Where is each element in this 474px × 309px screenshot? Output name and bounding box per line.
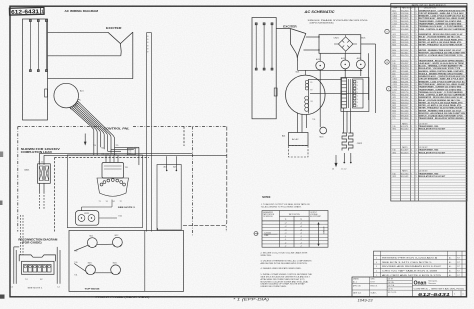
- parts row E21: [391, 92, 467, 94]
- parts row: [391, 140, 467, 142]
- generator stator block (schematic): [252, 18, 276, 119]
- parts row: [391, 189, 467, 191]
- parts row E21: [391, 26, 467, 28]
- wire M21-M22: [97, 243, 114, 245]
- schematic stator lead 1: [255, 23, 257, 70]
- wire bus to regulator: [105, 155, 107, 162]
- parts row: [391, 166, 467, 168]
- junction: [344, 70, 346, 72]
- control panel dashed box top-left: [18, 126, 101, 128]
- wire CB21 down a: [39, 183, 41, 192]
- dashed lead a: [20, 215, 22, 255]
- junction box: [128, 148, 136, 155]
- wire bus to schematic: [134, 152, 193, 154]
- parts row: [391, 187, 467, 189]
- parts row T40: [391, 63, 467, 65]
- terminal top 3: [45, 20, 47, 22]
- comb tooth: [353, 94, 356, 96]
- wire CT21 to M24: [319, 70, 321, 127]
- control panel dashed box left: [17, 127, 19, 232]
- parts row M22: [391, 42, 467, 44]
- wire to L2: [350, 153, 352, 162]
- terminal 5: [116, 179, 119, 182]
- parts row W21: [391, 71, 467, 73]
- dashed stub to front panel: [225, 226, 227, 232]
- revision balloon 13: [385, 60, 389, 64]
- chart arrow: [318, 224, 320, 245]
- parts row VR2: [391, 176, 467, 178]
- comb tooth: [353, 81, 356, 83]
- wire bridge to CT22: [344, 53, 346, 60]
- wire field bus: [298, 69, 363, 71]
- parts row: [391, 32, 467, 34]
- wire M23-M24: [95, 272, 111, 274]
- parts row T40: [391, 126, 467, 128]
- wire meter M21: [74, 245, 88, 251]
- wire rotor lead 7: [70, 107, 94, 155]
- parts row CR21: [391, 19, 467, 21]
- wire to ground stud: [335, 155, 337, 159]
- vertical bus bar left: [146, 33, 148, 232]
- edge mark left: [0, 201, 3, 206]
- wire rotor lead 3: [76, 104, 108, 152]
- reconnection terminal block top: [19, 255, 55, 261]
- stamp box 612-6431: [9, 7, 44, 15]
- auxiliary box: [157, 165, 181, 231]
- terminal top 1: [29, 20, 31, 22]
- aux box stub: [157, 228, 159, 231]
- dashed wire drop: [183, 127, 185, 147]
- parts row: [391, 168, 467, 170]
- balloon arrow: [255, 233, 258, 235]
- wire to exciter schematic: [276, 28, 290, 30]
- wire exciter lead 1: [48, 31, 109, 33]
- wire bus to regulator: [109, 155, 111, 162]
- diode stroke 3: [342, 45, 344, 47]
- field winding S coil: [305, 96, 309, 111]
- wire to L1: [343, 153, 345, 162]
- inner compartment dashed top: [55, 157, 150, 159]
- wire rail 2: [368, 53, 370, 100]
- control panel dashed box top-right: [133, 126, 227, 128]
- parts row: [391, 182, 467, 184]
- terminal 3: [107, 179, 110, 182]
- terminal 1: [100, 183, 103, 186]
- front panel box (rear view): [69, 231, 184, 292]
- parts row K21: [391, 100, 467, 102]
- parts row CB21: [391, 13, 467, 15]
- parts row T21: [391, 61, 467, 63]
- parts row M24: [391, 50, 467, 52]
- parts row CT21: [391, 87, 467, 89]
- comb tooth: [353, 84, 356, 86]
- parts row S21: [391, 55, 467, 57]
- parts row: [391, 192, 467, 194]
- parts row B21: [391, 11, 467, 13]
- bridge diamond: [338, 37, 353, 51]
- comb tooth: [353, 91, 356, 93]
- wire to CB21 a: [40, 152, 105, 154]
- parts row M23: [391, 45, 467, 47]
- terminal 7: [123, 183, 126, 186]
- wire rotor lead 6: [71, 107, 97, 156]
- parts row: [391, 163, 467, 165]
- parts row B21: [391, 76, 467, 78]
- schematic terminal bottom 1: [255, 68, 257, 70]
- wire bus to G21 top: [304, 70, 306, 75]
- control panel box right with elbow: [181, 127, 227, 226]
- parts row: [391, 142, 467, 144]
- generator rotor G21 circle: [286, 75, 326, 115]
- terminal 4: [111, 179, 114, 182]
- terminal bottom 3: [45, 70, 47, 72]
- module A11 upper: [289, 133, 309, 146]
- parts row CR21: [391, 84, 467, 86]
- arrowhead: [84, 142, 86, 146]
- wire bus to regulator: [113, 155, 115, 162]
- revision balloon 6: [385, 29, 389, 33]
- parts row A11: [391, 74, 467, 76]
- wire L2 b: [59, 250, 61, 284]
- parts row F21: [391, 29, 467, 31]
- schematic terminal bottom 2: [263, 68, 265, 70]
- terminal A03: [176, 170, 178, 172]
- parts row S21: [391, 116, 467, 118]
- comb tooth: [353, 104, 356, 106]
- ground arrow: [335, 159, 337, 166]
- wire rotor lead 1: [77, 101, 114, 156]
- wire box to CT23: [360, 53, 362, 60]
- parts row K21: [391, 37, 467, 39]
- wire F2: [304, 49, 320, 51]
- transformer T21 winding: [342, 78, 347, 108]
- rotor lead tick: [76, 103, 78, 104]
- wire between T21 and comb: [348, 79, 350, 108]
- wire exciter to field: [297, 61, 299, 70]
- parts row VR2: [391, 153, 467, 155]
- wire G21 to T21: [309, 78, 342, 80]
- parts row R21: [391, 113, 467, 115]
- module A11 lower dashed: [289, 146, 309, 158]
- generator stator block (wiring diagram): [23, 19, 48, 120]
- wire bus 1: [115, 146, 134, 148]
- parts row M21: [391, 40, 467, 42]
- current transformer CT21: [316, 61, 325, 70]
- rectifier CR21 cluster: [76, 211, 99, 226]
- schematic stator lead 2: [263, 23, 265, 70]
- parts row: [391, 145, 467, 147]
- schematic edge winding: [274, 88, 277, 96]
- parts row VR2: [391, 129, 467, 131]
- title block: [352, 277, 467, 297]
- wire G21 down c: [306, 114, 308, 128]
- wire CR21 to right rail: [361, 43, 376, 45]
- parts row TB21: [391, 66, 467, 68]
- parts list table: [391, 3, 467, 201]
- inner compartment dashed left: [54, 158, 56, 232]
- junction: [360, 70, 362, 72]
- terminal lug 4: [38, 265, 42, 273]
- wire CT23 down: [360, 69, 362, 76]
- wire F1: [306, 36, 319, 38]
- parts row CT22: [391, 90, 467, 92]
- rotor lead tick: [71, 107, 74, 109]
- comb tooth: [353, 98, 356, 100]
- parts row CB22: [391, 16, 467, 18]
- wire G21 to rail: [310, 93, 369, 95]
- rotor field axis wire: [308, 79, 310, 114]
- exciter funnel (wiring diagram): [108, 32, 121, 56]
- dashed wire b: [43, 192, 45, 210]
- terminal bottom 2: [37, 70, 39, 72]
- comb tooth: [353, 87, 356, 89]
- meter M24 schematic: [320, 127, 327, 134]
- parts row CT22: [391, 24, 467, 26]
- schematic terminal top 1: [255, 23, 257, 25]
- wire CT22 to T21: [344, 69, 346, 78]
- stator winding lead 3: [45, 20, 47, 71]
- parts row R21: [391, 53, 467, 55]
- meter M22: [113, 237, 123, 247]
- wire meter M23: [74, 264, 86, 272]
- parts row: [391, 47, 467, 49]
- circuit breaker CB21: [38, 164, 51, 184]
- wire L1 b: [15, 250, 17, 284]
- wire T21 to CB22 b: [346, 111, 348, 133]
- revision balloon 3: [387, 87, 391, 91]
- voltage regulator VR21 body: [102, 163, 124, 179]
- bridge rectifier CR21 box: [319, 35, 361, 54]
- wire CR21 to regulator: [82, 206, 113, 208]
- meter M24: [111, 265, 121, 275]
- rotor lead tick: [75, 104, 76, 105]
- parts row: [391, 58, 467, 60]
- wire L2 a: [56, 247, 58, 284]
- wire rotor lead 2: [77, 102, 112, 153]
- meter M21: [87, 238, 97, 248]
- terminal L2: [350, 162, 352, 164]
- schematic terminal top 2: [263, 23, 265, 25]
- parts row T40: [391, 150, 467, 152]
- wire rotor lead 5: [73, 106, 101, 147]
- parts row T21: [391, 118, 467, 120]
- wire drop to relay: [138, 147, 140, 165]
- terminal lug 5: [42, 265, 46, 273]
- parts row: [391, 121, 467, 123]
- parts row: [391, 184, 467, 186]
- terminal lug 2: [28, 265, 32, 273]
- rotor lead tick: [69, 107, 72, 109]
- parts row: [391, 197, 467, 199]
- wire bus to regulator: [117, 155, 119, 162]
- wire T21 to CB22 a: [343, 108, 345, 133]
- parts row: [391, 161, 467, 163]
- wire CR21 to CT21: [319, 53, 321, 61]
- wire rotor lead 4: [74, 105, 104, 149]
- parts row M21: [391, 103, 467, 105]
- schematic terminal top 3: [271, 23, 273, 25]
- wire exciter lead 2: [48, 55, 121, 57]
- vertical bus bar right: [151, 33, 153, 232]
- parts row: [391, 195, 467, 197]
- transformer T21 assembly box: [341, 78, 369, 112]
- wire to A03: [175, 156, 177, 170]
- wire CB21 drop b: [43, 155, 45, 164]
- parts row M24: [391, 111, 467, 113]
- dashed wire drop 2: [192, 127, 194, 237]
- dashed wire a: [39, 192, 41, 210]
- wire bus to schematic 2: [121, 154, 227, 156]
- terminal 6: [120, 181, 123, 184]
- bus bar top cap: [147, 32, 152, 34]
- edge mark bottom-left: [0, 295, 5, 299]
- terminal lug 3: [33, 265, 37, 273]
- edge mark left 2: [0, 152, 3, 158]
- reconnection terminal block body: [22, 261, 55, 274]
- wire to CB21 b: [44, 154, 101, 156]
- parts row: [391, 137, 467, 139]
- terminal 2: [103, 181, 106, 184]
- chart pointer balloon: [254, 232, 258, 236]
- terminal lug 1: [23, 265, 27, 273]
- stator winding lead 1: [29, 20, 31, 71]
- wire bus 2: [111, 148, 134, 150]
- circuit breaker CB22 coil b: [349, 133, 354, 151]
- diode stroke 2: [347, 40, 349, 42]
- parts row G21: [391, 97, 467, 99]
- parts row: [391, 155, 467, 157]
- schematic terminal bottom 3: [271, 68, 273, 70]
- circuit breaker CB22 coil a: [342, 133, 347, 151]
- current transformer CT23: [356, 60, 365, 69]
- wire G21 to A11 a: [297, 113, 299, 133]
- compartment box: [67, 155, 142, 228]
- parts row M23: [391, 108, 467, 110]
- comb tooth: [353, 101, 356, 103]
- junction: [319, 70, 321, 72]
- wire to A02: [166, 156, 168, 170]
- wire CR21 right: [99, 217, 117, 219]
- parts row T40: [391, 174, 467, 176]
- parts row G21: [391, 34, 467, 36]
- parts row: [391, 132, 467, 134]
- wire right rail: [375, 44, 377, 113]
- terminal A02: [166, 170, 168, 172]
- revision table: [374, 251, 467, 277]
- rotor circle A01: [54, 83, 79, 108]
- exciter funnel (schematic): [290, 29, 297, 62]
- rotor lead tick: [78, 98, 80, 101]
- wire bus ext: [134, 146, 139, 148]
- wire L1 a: [13, 247, 15, 284]
- current transformer CT22: [341, 60, 350, 69]
- field winding F coil: [305, 80, 308, 90]
- rotor lead tick: [73, 106, 74, 108]
- parts row: [391, 134, 467, 136]
- wire bus 4: [104, 152, 134, 154]
- wire CB21 drop a: [39, 153, 41, 164]
- terminal comb TB21: [353, 79, 364, 108]
- wire CB21 down b: [43, 183, 45, 192]
- dashed lead b: [22, 215, 24, 255]
- tap position chart: [262, 211, 328, 248]
- front panel divider: [144, 231, 146, 292]
- parts row M22: [391, 105, 467, 107]
- terminal lug 6: [47, 265, 51, 273]
- wire lead to exciter: [84, 134, 86, 144]
- rotor lead tick: [77, 100, 79, 103]
- parts row CT21: [391, 21, 467, 23]
- wire exciter lead 3: [48, 78, 133, 80]
- edge winding S1: [45, 89, 48, 97]
- parts row VR21: [391, 68, 467, 70]
- terminal L1: [343, 162, 345, 164]
- diode stroke 4: [347, 45, 349, 47]
- wire G21 to A11 b: [301, 114, 303, 133]
- meter M23: [86, 265, 96, 275]
- wire bus 5: [101, 154, 121, 156]
- terminal bottom 1: [29, 70, 31, 72]
- parts row: [391, 200, 467, 202]
- parts row: [391, 179, 467, 181]
- parts row: [391, 158, 467, 160]
- regulator terminal base: [97, 178, 129, 196]
- wire T21 to CB22 c: [350, 108, 352, 133]
- parts row CB22: [391, 82, 467, 84]
- parts row F21: [391, 95, 467, 97]
- wire CR21 up: [81, 207, 83, 211]
- parts row CB21: [391, 79, 467, 81]
- terminal top 2: [37, 20, 39, 22]
- wire bus 3: [108, 150, 121, 152]
- schematic stator lead 3: [271, 23, 273, 70]
- diode stroke 1: [342, 40, 344, 42]
- stator winding lead 2: [37, 20, 39, 71]
